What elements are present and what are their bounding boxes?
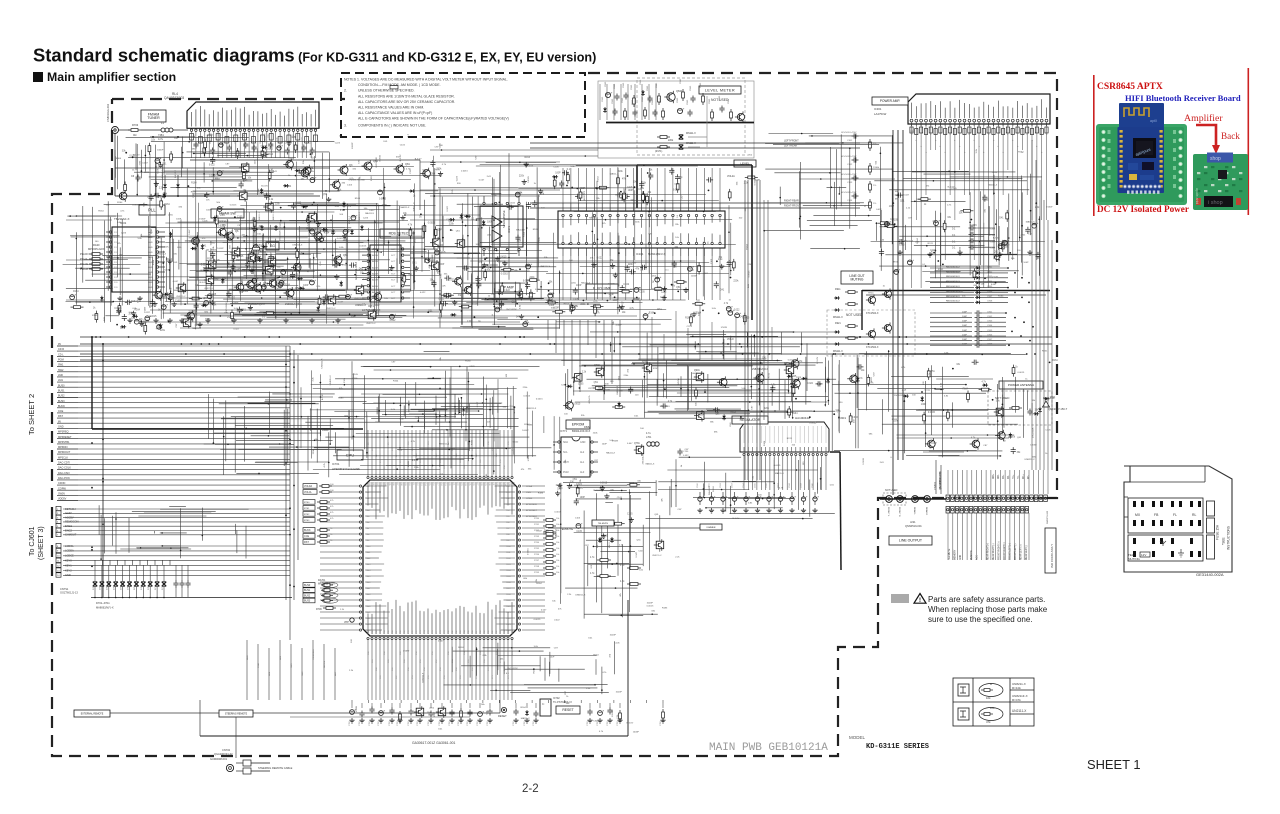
transistor Q841 [664,91,675,103]
svg-text:VOL2A: VOL2A [727,175,735,178]
svg-text:R164: R164 [355,198,361,200]
svg-text:DC 12V Isolated Power: DC 12V Isolated Power [1097,204,1189,214]
svg-text:UN8211-X: UN8211-X [903,241,914,243]
svg-text:INSTRUCTIONS: INSTRUCTIONS [1227,526,1231,550]
svg-text:P70: P70 [408,631,410,634]
svg-text:100P: 100P [889,206,895,208]
svg-text:2SC2412K: 2SC2412K [507,668,518,670]
svg-text:D41: D41 [408,275,413,277]
svg-text:R164: R164 [685,317,691,319]
svg-text:0.0015: 0.0015 [573,404,581,406]
tuner pin drops [192,132,316,159]
svg-text:MA111-X: MA111-X [263,133,266,142]
svg-text:TELMUTE: TELMUTE [598,523,609,525]
svg-text:0.0015: 0.0015 [528,175,530,182]
svg-text:PB0: PB0 [506,486,510,488]
svg-text:P31: P31 [492,482,494,485]
svg-text:VOLCL: VOLCL [304,491,313,494]
cpu right pullups [590,557,641,585]
svg-text:UN8211-X: UN8211-X [330,375,332,386]
svg-text:B-5.6V: B-5.6V [412,460,419,462]
regulator pin drops [744,456,826,490]
svg-text:LEFT-FRONT: LEFT-FRONT [784,140,799,143]
svg-text:0.0015: 0.0015 [1018,372,1025,374]
svg-text:PA19: PA19 [366,599,370,602]
eeprom area components [543,479,640,538]
svg-text:To SHEET 2: To SHEET 2 [27,394,36,435]
diodes MN111-X pair [655,96,707,153]
cpu top pin labels [368,441,514,469]
svg-text:MA111-X: MA111-X [401,206,410,209]
ISO CORD ASSY box [1045,528,1056,573]
tuner ground row [127,318,340,323]
cpu top pin fan [368,430,512,477]
svg-text:SW5V: SW5V [58,493,65,496]
svg-text:ADDE: ADDE [372,254,379,257]
svg-text:0.0015: 0.0015 [748,270,750,277]
cpu section bottom rail [200,735,628,737]
svg-text:P30: P30 [488,482,490,485]
svg-text:MODEL: MODEL [849,735,866,740]
svg-text:0.047: 0.047 [173,281,179,283]
svg-text:PA5: PA5 [366,515,369,518]
svg-text:TEL MUTE: TEL MUTE [949,548,951,560]
svg-text:C105: C105 [295,267,301,269]
svg-text:1000P: 1000P [691,275,698,277]
svg-text:100P: 100P [555,173,561,175]
svg-text:FR+: FR+ [1003,474,1005,479]
svg-text:0.047: 0.047 [189,229,191,235]
EXTERNAL REMOTE box [74,710,110,717]
svg-text:NOT USED: NOT USED [885,489,898,492]
between evol and pamp [763,133,903,250]
svg-text:CDON: CDON [58,482,66,485]
svg-text:220k: 220k [160,330,166,332]
svg-text:MN111-X: MN111-X [686,132,696,135]
cpu right interface components [522,485,560,630]
reset test point [501,707,506,712]
cn601 lower drops [948,513,1029,560]
svg-text:UN8211-X: UN8211-X [326,308,336,310]
svg-text:0.0015: 0.0015 [261,146,268,148]
mid right column [631,333,826,414]
svg-text:100P: 100P [434,711,436,717]
svg-text:R164: R164 [699,415,705,417]
svg-text:R164: R164 [73,291,79,293]
svg-text:ALL CAPACITANCE VALUES ARE IN: ALL CAPACITANCE VALUES ARE IN uF(P=pF) [358,111,432,115]
svg-text:PB21: PB21 [506,612,511,614]
svg-text:+: + [899,268,901,272]
svg-text:CN7S1: CN7S1 [60,587,69,591]
svg-text:C105: C105 [353,374,359,376]
bus junction dots [91,336,1036,587]
svg-text:220k: 220k [120,328,126,330]
svg-text:1/16W: 1/16W [678,377,680,384]
svg-text:C223: C223 [796,377,802,379]
svg-text:KTC1504-X: KTC1504-X [866,312,879,315]
svg-text:0.0015: 0.0015 [158,197,166,199]
svg-text:C962: C962 [987,316,993,318]
svg-text:C845: C845 [614,83,616,89]
svg-text:C845: C845 [680,78,682,84]
svg-text:2-2: 2-2 [522,783,539,795]
svg-text:sure to use the specified one.: sure to use the specified one. [928,615,1033,624]
svg-text:D41: D41 [727,262,732,264]
svg-text:PB12: PB12 [506,558,511,560]
svg-text:B-5.6V: B-5.6V [322,393,324,400]
svg-text:C105: C105 [992,277,998,279]
svg-text:AL2: AL2 [580,451,585,454]
svg-text:2SC2412K: 2SC2412K [894,395,905,397]
svg-text:C845: C845 [728,98,730,104]
svg-text:220k: 220k [253,286,259,288]
svg-text:MP3DIN: MP3DIN [58,446,68,449]
svg-text:LEVEL METER: LEVEL METER [705,88,735,92]
svg-text:C105: C105 [410,168,412,174]
svg-text:1/16W: 1/16W [604,389,611,391]
svg-text:RDSCL: RDSCL [324,660,326,668]
svg-text:R741: R741 [769,372,771,378]
svg-text:+: + [740,311,742,315]
svg-text:GND: GND [580,441,586,444]
svg-text:0.022: 0.022 [209,165,215,167]
svg-text:R164: R164 [117,202,123,204]
svg-text:MP2005-222X: MP2005-222X [88,247,105,251]
svg-text:2SC2412K: 2SC2412K [1033,427,1035,438]
right mid routing [832,350,1032,459]
svg-text:R164: R164 [166,259,172,261]
svg-text:MN111-X: MN111-X [833,316,843,319]
svg-text:SFV50XU-474Z: SFV50XU-474Z [841,156,857,158]
svg-text:REAR RIGHT(-): REAR RIGHT(-) [992,543,995,560]
svg-text:STEERING REMOTE: STEERING REMOTE [225,713,248,715]
svg-text:R164: R164 [393,381,399,383]
svg-text:P72: P72 [416,631,418,634]
inter section verticals 2 [640,300,772,360]
svg-text:C845: C845 [709,98,711,104]
svg-text:P09: P09 [404,482,406,485]
svg-text:UN8211-X: UN8211-X [652,555,662,557]
svg-text:C965: C965 [987,330,993,332]
svg-text:R741: R741 [205,319,211,321]
svg-text:PB17: PB17 [506,588,511,590]
svg-text:R=10k: R=10k [1012,686,1021,690]
svg-text:P34: P34 [504,482,506,485]
cpu area labels [313,356,671,477]
svg-text:+: + [1037,221,1039,225]
key matrix routing [99,505,249,560]
svg-text:0.022: 0.022 [373,296,379,298]
svg-text:0.022: 0.022 [852,417,858,419]
LINE OUT MUTING label box [841,271,873,284]
svg-text:RT61: RT61 [304,508,310,510]
power amp pin labels [911,133,1048,153]
svg-text:BUS0: BUS0 [58,384,65,387]
svg-text:2SC2412K: 2SC2412K [158,247,169,249]
svg-text:ADDE: ADDE [372,279,379,282]
svg-text:D41: D41 [720,290,725,292]
fmamsw extra routing [161,212,347,319]
svg-text:Amplifier: Amplifier [1184,113,1223,124]
svg-text:REAR LEFT(+): REAR LEFT(+) [1020,544,1023,560]
svg-text:UN8211-X: UN8211-X [156,254,167,256]
svg-text:IC301: IC301 [874,107,882,111]
svg-text:B-5.6V: B-5.6V [400,154,402,161]
svg-text:0.022: 0.022 [513,442,519,444]
svg-text:RST: RST [58,415,63,418]
svg-text:AL1: AL1 [580,461,585,464]
svg-text:D41: D41 [516,316,521,318]
svg-text:PA20: PA20 [366,605,370,608]
svg-text:P79: P79 [444,631,446,634]
svg-text:D921: D921 [835,322,841,325]
svg-text:GA3061T-001Z GA3061-001: GA3061T-001Z GA3061-001 [412,741,455,745]
svg-text:MA111-X: MA111-X [348,215,351,224]
svg-text:C105: C105 [235,269,241,271]
svg-text:ANT: ANT [334,671,337,676]
svg-text:0.022: 0.022 [576,484,582,486]
svg-text:PA7: PA7 [366,527,369,530]
svg-text:MN111-X: MN111-X [686,142,696,145]
svg-text:P76: P76 [432,631,434,634]
svg-text:POWER ANTENNA: POWER ANTENNA [1008,383,1034,387]
svg-text:0.047: 0.047 [627,443,633,445]
OP AMP label box [495,283,520,292]
svg-text:D41: D41 [740,316,745,318]
svg-text:C223: C223 [638,550,644,552]
svg-text:+: + [771,495,773,499]
svg-text:C845: C845 [622,97,624,103]
svg-text:C352: C352 [990,248,996,250]
svg-text:D41: D41 [556,485,561,487]
svg-text:RESET: RESET [498,714,507,718]
svg-text:0.022: 0.022 [504,290,510,292]
inter section verticals [548,320,620,397]
svg-text:P80: P80 [448,631,450,634]
svg-text:IC101: IC101 [636,252,644,256]
svg-text:MA111-X: MA111-X [596,539,599,548]
svg-text:220k: 220k [343,239,349,241]
tuner area labels [116,133,454,321]
svg-text:C962: C962 [987,271,993,273]
svg-text:CONDITION----FM MODE. AM: CONDITION----FM MODE. AM MODE. | 1CD MOD… [358,83,441,87]
svg-text:R164: R164 [191,182,197,184]
svg-text:PB24: PB24 [506,630,511,632]
svg-text:D41: D41 [412,262,417,264]
svg-text:UN8211-X: UN8211-X [321,358,323,369]
svg-text:R741: R741 [868,293,874,295]
svg-text:C223: C223 [335,142,341,144]
CPU label box [337,450,363,460]
svg-text:Q81: Q81 [405,163,410,166]
svg-text:100P: 100P [485,249,491,251]
svg-text:R164: R164 [713,486,715,492]
svg-text:+: + [223,141,225,145]
svg-text:R164: R164 [153,259,155,265]
svg-text:MP3CLK: MP3CLK [58,456,68,459]
svg-text:+: + [737,495,739,499]
svg-text:P02: P02 [376,482,378,485]
svg-text:C845: C845 [719,95,721,101]
svg-text:0.0015: 0.0015 [600,483,608,485]
svg-text:NOT USED: NOT USED [846,313,863,317]
svg-text:0.022: 0.022 [623,284,629,286]
svg-text:B: B [990,682,992,686]
svg-text:PB18: PB18 [506,594,511,596]
svg-text:1/16W: 1/16W [356,705,358,712]
svg-text:+: + [938,219,940,223]
vertical trunk wires [745,180,768,480]
L701 coil [647,442,651,446]
level meter thick bus [606,122,754,124]
svg-text:VOLTAGES ARE DC-MEASURED WITH: VOLTAGES ARE DC-MEASURED WITH A DIGITAL … [361,78,508,82]
center sparse routing [305,352,551,467]
svg-text:PA4: PA4 [366,509,369,512]
svg-text:MA111-X: MA111-X [174,169,177,178]
svg-text:REAR RIGHT(+): REAR RIGHT(+) [987,543,990,560]
svg-text:UN8211-X: UN8211-X [439,444,450,446]
svg-text:0.0015: 0.0015 [149,316,157,318]
svg-text:+: + [611,90,613,94]
bus labels to sheet 2 [57,343,290,501]
svg-text:+: + [748,495,750,499]
svg-text:RST: RST [304,541,309,544]
svg-text:R164: R164 [207,259,213,261]
svg-text:C105: C105 [344,377,346,383]
svg-text:R183: R183 [662,608,668,610]
svg-text:P93: P93 [500,631,502,634]
svg-text:+: + [912,258,914,262]
svg-text:Main amplifier section: Main amplifier section [47,70,176,84]
svg-text:C105: C105 [603,536,609,538]
svg-text:0.0015: 0.0015 [774,465,781,467]
svg-text:RT46: RT46 [534,554,540,556]
svg-text:VPP: VPP [344,621,349,624]
svg-text:C105: C105 [627,513,633,515]
svg-text:+: + [817,495,819,499]
svg-text:R703: R703 [132,123,139,127]
cpu nw routing [200,392,366,478]
svg-text:NJW1159/V-X: NJW1159/V-X [648,252,665,256]
svg-text:ALL RESISTORS ARE 1/16W 5% MET: ALL RESISTORS ARE 1/16W 5% METAL GLAZE R… [358,94,455,98]
cpu bottom pin fan [368,639,512,700]
svg-text:PA3: PA3 [366,503,369,506]
svg-text:220k: 220k [668,139,674,142]
svg-text:P96: P96 [512,631,514,634]
svg-text:FRONT LEFT(-): FRONT LEFT(-) [1015,543,1017,560]
outer dashed border [52,73,1057,756]
power amp labels [864,131,1053,298]
svg-text:POWER AMP.: POWER AMP. [880,99,900,103]
svg-text:P01: P01 [372,482,374,485]
svg-text:UN8211-X: UN8211-X [230,260,240,262]
svg-text:B-5.6V: B-5.6V [200,282,207,284]
level meter thin box [598,81,754,158]
svg-text:IC: IC [542,703,545,706]
svg-text:1000P: 1000P [633,732,640,734]
svg-text:apule-shld: apule-shld [1195,188,1199,204]
svg-text:P17: P17 [436,482,438,485]
tuner routing upper [115,136,339,199]
mid section components [420,157,561,317]
svg-text:MN111-X: MN111-X [833,350,843,353]
svg-text:RT47: RT47 [534,560,540,562]
svg-text:C967: C967 [987,296,993,298]
svg-text:0.0015: 0.0015 [863,457,865,464]
svg-text:LM1: LM1 [58,379,63,382]
svg-text:4.7u: 4.7u [158,137,164,141]
regulator transistors [594,361,794,456]
svg-text:R741: R741 [472,439,474,445]
svg-text:PB2: PB2 [506,498,510,500]
svg-text:R164: R164 [324,232,330,234]
svg-text:R183: R183 [538,493,544,495]
svg-text:MA111-X: MA111-X [272,211,275,220]
svg-text:STEERING REMOTE CABLE: STEERING REMOTE CABLE [258,766,293,770]
LEVEL METER label box [699,86,741,94]
svg-text:C105: C105 [290,137,296,139]
svg-text:UN8211-X: UN8211-X [1025,459,1036,461]
bottom left routing [247,640,337,700]
svg-text:+: + [350,293,352,297]
line out muting circuits [833,288,892,353]
cpu n routing [371,394,518,431]
svg-text:C105: C105 [347,185,353,187]
svg-text:P82: P82 [456,631,458,634]
svg-text:LINE OUTPUT: LINE OUTPUT [899,539,923,543]
bus labels to CJ601 [56,506,290,577]
svg-text:DIMM: DIMM [322,429,328,432]
svg-text:+: + [783,495,785,499]
svg-text:0.022: 0.022 [420,292,426,294]
svg-text:P87: P87 [476,631,478,634]
svg-text:0.047: 0.047 [991,284,997,286]
svg-text:!: ! [919,598,921,604]
svg-text:P67: P67 [396,631,398,634]
tuner bottom bus [150,195,320,197]
svg-text:RT41: RT41 [534,524,540,526]
svg-text:MX: MX [1135,513,1141,517]
svg-text:0.022: 0.022 [363,279,369,281]
evol mid extra routing [462,164,736,324]
regulator below routing [646,456,835,519]
svg-text:220k: 220k [436,169,442,171]
svg-text:7481: 7481 [158,133,164,137]
svg-text:47k: 47k [986,720,991,724]
svg-text:R741: R741 [938,269,944,271]
svg-text:REGULATOR: REGULATOR [740,418,761,422]
svg-text:R164: R164 [373,249,379,251]
svg-text:EPROMCK: EPROMCK [526,504,538,506]
svg-text:R706: R706 [316,608,322,611]
svg-text:RB160M-30-X: RB160M-30-X [946,276,960,278]
svg-text:R741: R741 [894,261,900,263]
svg-text:PB15: PB15 [506,576,511,578]
svg-text:0.047: 0.047 [369,210,375,212]
notes box [341,73,585,137]
svg-text:CSR8645 APTX: CSR8645 APTX [1097,82,1163,92]
svg-text:BUCK: BUCK [58,405,65,408]
svg-text:KD-G311E SERIES: KD-G311E SERIES [866,743,929,751]
svg-text:100P: 100P [557,489,563,491]
svg-text:IC702: IC702 [553,697,560,700]
long horizontal wires [140,149,640,329]
svg-text:R183: R183 [533,229,539,231]
svg-text:P05: P05 [388,482,390,485]
svg-text:C105: C105 [553,167,559,169]
svg-text:SFV50XU-474Z: SFV50XU-474Z [841,174,857,176]
svg-text:2SC2412K: 2SC2412K [280,230,282,241]
